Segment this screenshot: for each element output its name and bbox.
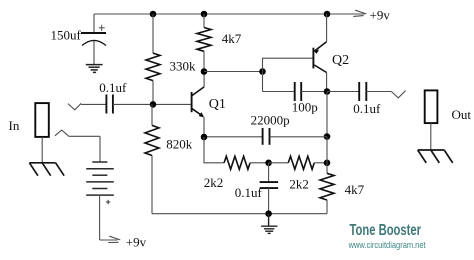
- svg-text:Tone Booster: Tone Booster: [350, 222, 422, 239]
- svg-text:Q2: Q2: [332, 53, 349, 68]
- wire: Q1 collector node to Q2 base branch: [204, 71, 263, 73]
- svg-text:150uf: 150uf: [51, 28, 82, 43]
- svg-text:In: In: [9, 118, 20, 133]
- label 2k2 (left): [204, 175, 224, 190]
- svg-text:Q1: Q1: [209, 97, 226, 112]
- resistor 330k: [146, 14, 160, 104]
- node: junction dot bottom rail/ground: [265, 210, 272, 217]
- wire: Out jack sleeve down: [430, 123, 432, 150]
- ground (chassis fork) below In jack: [29, 163, 64, 176]
- svg-text:www.circuitdiagram.net: www.circuitdiagram.net: [348, 240, 426, 250]
- label +9v (bottom left): [126, 234, 147, 249]
- label Out: [452, 107, 472, 122]
- label 0.1uf (input): [99, 80, 127, 95]
- ground (chassis fork) below Out jack: [418, 150, 453, 163]
- node: junction dot 2k2/2k2/0.1uf: [265, 160, 272, 167]
- svg-text:0.1uf: 0.1uf: [99, 80, 127, 95]
- node: junction dot rail/Q2 emitter: [324, 11, 331, 18]
- svg-text:Out: Out: [452, 107, 472, 122]
- label 0.1uf (output): [353, 101, 381, 116]
- label 4k7 (right): [345, 182, 365, 197]
- svg-text:0.1uf: 0.1uf: [353, 101, 381, 116]
- wire: jack sleeve break squiggle to battery: [55, 130, 100, 162]
- label Q2: [332, 53, 349, 68]
- svg-text:100p: 100p: [292, 99, 318, 114]
- node: junction dot 22000p right: [324, 133, 331, 140]
- label: www.circuitdiagram.net: [348, 240, 426, 250]
- wire: bottom rail: [152, 213, 327, 215]
- node: junction dot 4k7/Q1 collector: [201, 68, 208, 75]
- svg-text:4k7: 4k7: [345, 182, 365, 197]
- battery 9v: [86, 162, 114, 195]
- wire: +9v top rail: [94, 13, 365, 15]
- node: junction dot rail/330k: [150, 11, 157, 18]
- +9v arrow (top right): [353, 10, 366, 16]
- node: junction dot input/330k/820k: [150, 101, 157, 108]
- capacitor 150uf (polarized, rail to ground): [81, 14, 106, 64]
- wire: input break squiggle: [68, 103, 81, 110]
- label +9v (top right): [370, 8, 391, 23]
- resistor 4k7 (right): [320, 137, 334, 214]
- label: + polarity of battery: [106, 200, 110, 204]
- node: junction dot Q2 emitter/100p/0.1uf out: [324, 88, 331, 95]
- node: junction dot rail/4k7: [201, 11, 208, 18]
- capacitor 100p: [263, 82, 328, 101]
- resistor 4k7 (top): [197, 14, 211, 72]
- svg-text:+9v: +9v: [126, 234, 147, 249]
- wire: In jack sleeve down: [41, 137, 43, 163]
- svg-text:330k: 330k: [170, 58, 197, 73]
- label 22000p: [251, 113, 290, 128]
- label Q1: [209, 97, 226, 112]
- label 4k7 (top): [222, 31, 242, 46]
- resistor 2k2 (right): [269, 156, 327, 169]
- +9v arrow (bottom left): [108, 236, 120, 242]
- label 2k2 (right): [289, 176, 309, 191]
- label 820k: [166, 137, 193, 152]
- svg-text:22000p: 22000p: [251, 113, 290, 128]
- capacitor 22000p: [204, 128, 327, 145]
- Out jack terminal: [425, 90, 438, 123]
- transistor Q1 (npn): [192, 72, 205, 138]
- label: Tone Booster title: [350, 222, 422, 239]
- wire: output break squiggle: [391, 91, 405, 98]
- capacitor 0.1uf (bottom, to ground): [260, 163, 279, 214]
- svg-text:+9v: +9v: [370, 8, 391, 23]
- label In: [9, 118, 20, 133]
- capacitor 0.1uf (output): [327, 82, 391, 101]
- wire: up and over to Q2 base: [263, 58, 314, 71]
- node: junction dot Q1 emitter: [201, 134, 208, 141]
- label 0.1uf (bottom): [235, 185, 263, 200]
- label 150uf: [51, 28, 82, 43]
- ground (earth) below 150uf: [86, 65, 103, 73]
- capacitor 0.1uf (input): [81, 95, 192, 114]
- wire: emitter node down: [326, 92, 328, 137]
- transistor Q2 (pnp): [313, 14, 326, 92]
- svg-text:2k2: 2k2: [289, 176, 309, 191]
- resistor 820k: [145, 104, 159, 213]
- wire: Q1 emitter down to 2k2: [204, 137, 224, 163]
- label: + polarity of 150uf: [99, 25, 105, 31]
- resistor 2k2 (left): [224, 156, 269, 169]
- svg-text:820k: 820k: [166, 137, 193, 152]
- In jack terminal: [35, 103, 49, 137]
- node: junction dot 2k2/4k7: [324, 160, 331, 167]
- label 100p: [292, 99, 318, 114]
- node: junction dot base branch: [259, 68, 266, 75]
- wire: base branch down to 100p: [262, 72, 264, 92]
- svg-text:0.1uf: 0.1uf: [235, 185, 263, 200]
- svg-text:4k7: 4k7: [222, 31, 242, 46]
- label 330k: [170, 58, 197, 73]
- ground (earth) bottom: [261, 214, 277, 234]
- svg-text:2k2: 2k2: [204, 175, 224, 190]
- wire: battery + down to +9v arrow: [100, 195, 118, 240]
